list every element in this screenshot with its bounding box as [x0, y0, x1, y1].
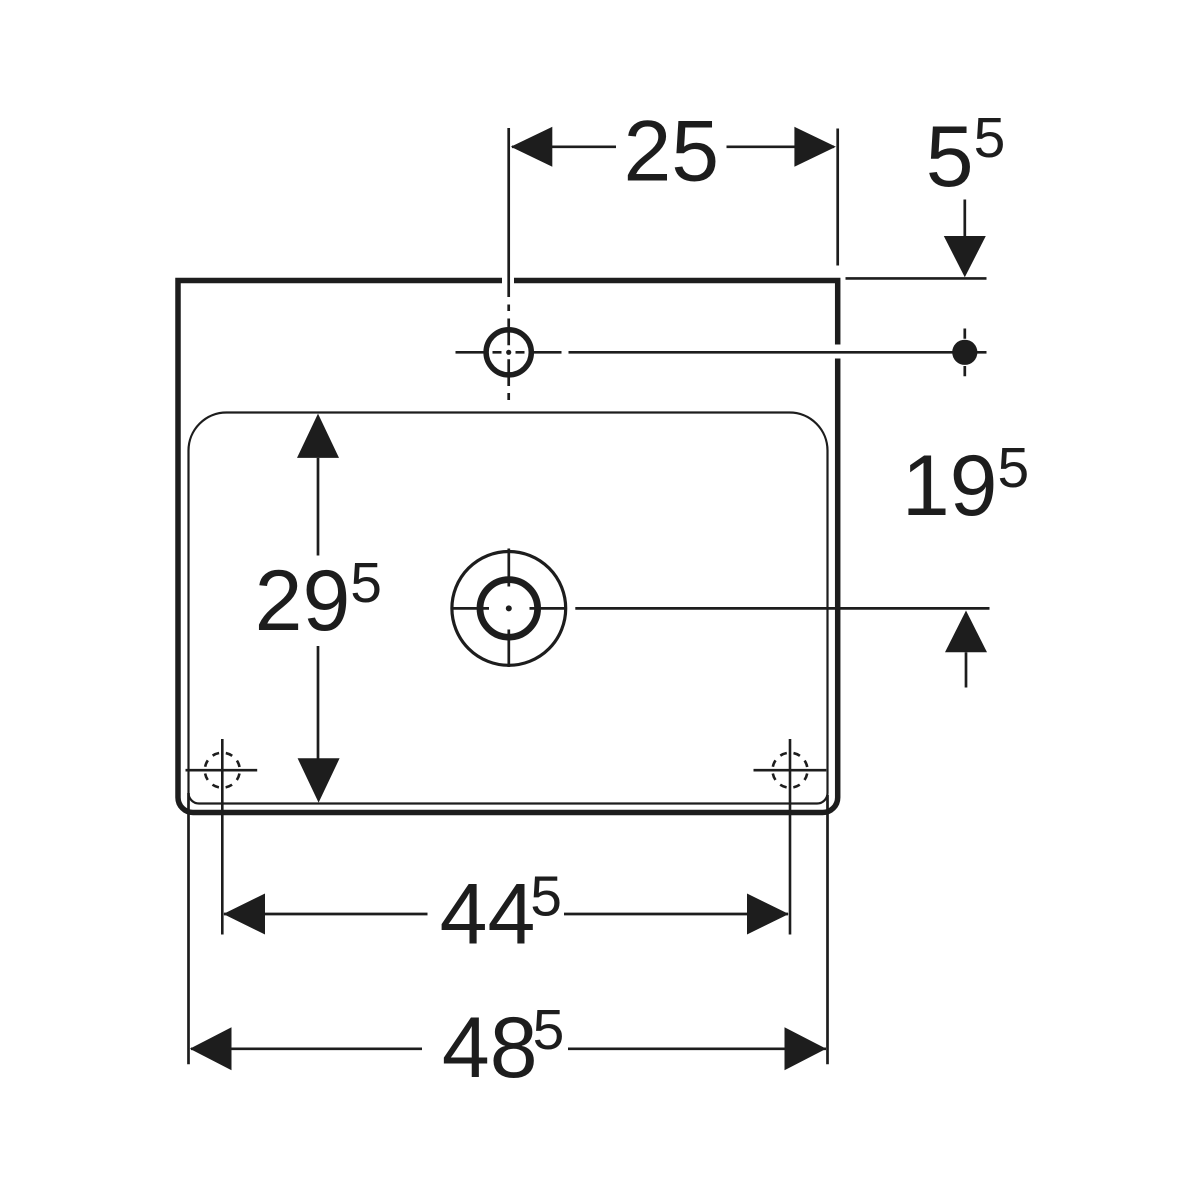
svg-text:25: 25 [623, 104, 719, 200]
